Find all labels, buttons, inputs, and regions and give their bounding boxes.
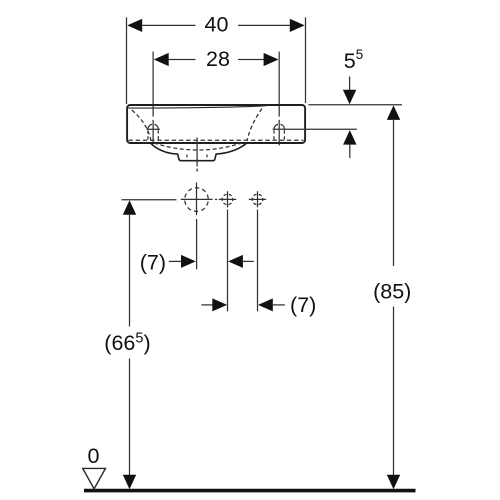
tap hole left center line <box>152 120 154 144</box>
bowl underside shell with drain lip <box>150 143 247 161</box>
basin bottom hidden line <box>129 139 304 141</box>
svg-text:40: 40 <box>205 13 229 37</box>
dimension 28 extension line left <box>152 52 154 117</box>
dimension 28 arrowhead right <box>264 53 279 66</box>
drain hole crosshair dash right <box>215 198 217 200</box>
tap hole right center line <box>278 120 280 146</box>
dimension 40 arrowhead left <box>127 19 142 32</box>
dimension 40 line right segment <box>238 24 291 26</box>
fixing hole 1 extension line down <box>227 210 229 312</box>
drain center line dash <box>196 169 198 172</box>
svg-text:(665): (665) <box>104 330 150 355</box>
fixing hole 1 crosshair horizontal <box>219 198 236 200</box>
svg-text:(85): (85) <box>373 279 411 303</box>
datum triangle <box>83 468 106 488</box>
drain center line <box>196 138 198 167</box>
dimension 85 lower arrowhead <box>387 475 400 490</box>
tap hole left hidden circle <box>148 124 158 129</box>
fixing hole 2 hidden circle <box>252 194 263 205</box>
tap hole right hidden side left <box>273 130 275 140</box>
dimension 665 top reference line <box>122 199 177 201</box>
dimension 55 upper arrow line <box>349 77 351 92</box>
dimension 55 top reference line <box>308 104 402 106</box>
dimension 7 first arrowhead right <box>228 255 243 268</box>
dimension 28 extension line right <box>278 52 280 117</box>
fixing hole 1 hidden circle <box>222 194 233 205</box>
dimension 7 second arrowhead left <box>212 298 227 311</box>
dimension 665 line lower segment <box>129 359 131 477</box>
dimension 665 lower arrowhead <box>123 475 136 490</box>
bowl hidden contour left <box>132 110 151 140</box>
tap hole right hidden side right <box>283 130 285 140</box>
dimension 7 first arrowhead left <box>181 255 196 268</box>
dimension 665 line upper segment <box>129 214 131 327</box>
washbasin outer body <box>127 105 305 143</box>
fixing hole 2 crosshair vertical <box>257 191 259 207</box>
drain hole crosshair vertical <box>196 182 198 215</box>
dimension 40 extension line left <box>126 17 128 104</box>
dimension 28 arrowhead left <box>154 53 169 66</box>
dimension 55 upper arrowhead <box>343 90 356 105</box>
dimension 55 lower arrow line <box>349 144 351 158</box>
fixing hole 1 crosshair vertical <box>227 191 229 207</box>
svg-text:28: 28 <box>206 47 230 71</box>
dimension 85 upper arrowhead <box>387 105 400 120</box>
dimension 665 upper arrowhead <box>123 200 136 215</box>
dimension 7 second arrowhead right <box>258 298 273 311</box>
dimension 7 first arrow line right <box>242 260 254 262</box>
dimension 7 second arrow line left <box>201 304 214 306</box>
drain lip inner tick left <box>186 154 188 157</box>
drain hole extension line down <box>196 219 198 269</box>
svg-text:(7): (7) <box>290 293 316 317</box>
dimension 40 arrowhead right <box>290 19 305 32</box>
tap hole left hidden side left <box>147 130 149 140</box>
washbasin rim inner edge <box>128 106 267 108</box>
dimension 55 lower arrowhead <box>343 130 356 145</box>
svg-text:0: 0 <box>88 444 100 468</box>
tap hole right cross line extended reference <box>273 128 357 130</box>
tap hole left hidden side right <box>157 130 159 140</box>
floor line <box>84 489 416 493</box>
dimension 40 line left segment <box>142 24 196 26</box>
dimension 7 second arrow line right <box>272 304 285 306</box>
dimension 28 line right segment <box>238 59 265 61</box>
fixing hole 2 extension line down <box>257 210 259 312</box>
drain lip inner tick right <box>206 154 208 157</box>
bowl underside hidden curve <box>154 143 242 150</box>
drain hole hidden circle <box>185 188 209 212</box>
fixing hole 2 crosshair horizontal <box>249 198 266 200</box>
tap hole right hidden circle <box>274 124 284 129</box>
dimension 85 line lower segment <box>393 307 395 477</box>
dimension 40 extension line right <box>305 17 307 103</box>
tap hole left cross line <box>147 128 160 130</box>
drain hole crosshair horizontal <box>181 198 213 200</box>
bowl hidden contour right <box>247 109 262 141</box>
svg-text:(7): (7) <box>140 250 166 274</box>
dimension 28 line left segment <box>168 59 196 61</box>
dimension 7 first arrow line left <box>169 260 183 262</box>
dimension 85 line upper segment <box>393 119 395 266</box>
